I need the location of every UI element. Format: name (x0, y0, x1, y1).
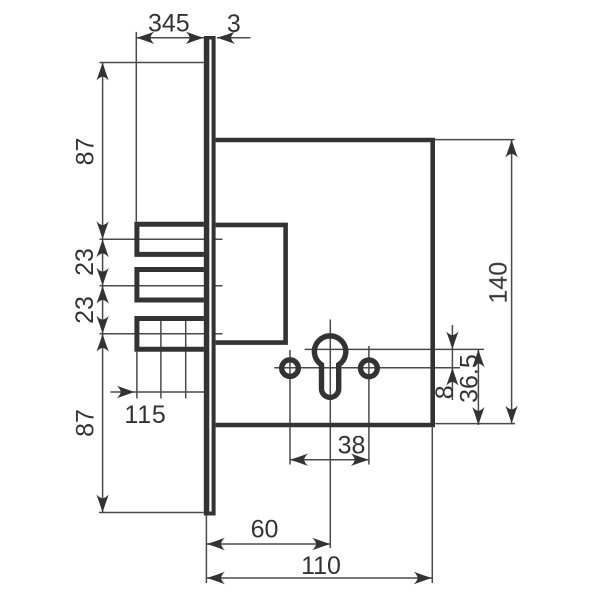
dimension line 8 (x=452.4) (451, 325, 453, 400)
dimension line 3 (y=37.8) (217, 37, 251, 39)
dimension line 115 (y=392) (111, 391, 207, 393)
extension line bolt3 inner vertical 2 (185, 316, 187, 399)
arrow 23b top up (96, 286, 108, 304)
svg-text:23: 23 (71, 248, 99, 276)
dimension line 87/23/23/87 vertical chain (102, 63, 104, 513)
left screw hole (282, 360, 299, 377)
arrow 87 top up (96, 63, 108, 81)
svg-text:3: 3 (227, 10, 241, 38)
centerline screw holes horizontal (y=367.8) (274, 367, 460, 369)
deadbolt 1 (137, 224, 204, 254)
arrow 140 top up (505, 140, 517, 158)
centerline right screw vertical (368, 346, 370, 465)
arrow 36.5 top up (472, 349, 484, 367)
dimension line 60 (y=544) (206, 543, 330, 545)
faceplate inner slot (209, 40, 211, 512)
arrow 110 right (414, 572, 432, 584)
arrow 87 bottom down (96, 221, 108, 239)
dimension line 110 (y=578) (206, 577, 431, 579)
extension line x=136.3 from top dim to bolt boxes (135, 32, 137, 222)
arrow 60 right (312, 538, 330, 550)
extension line bolt3 center (y=333.8) (100, 333, 223, 335)
arrow 345 right (186, 32, 204, 44)
extension line bolt2 center (y=285.8) (100, 285, 223, 287)
svg-text:115: 115 (124, 401, 166, 429)
svg-text:87: 87 (72, 409, 100, 437)
centerline cylinder vertical (329, 320, 331, 549)
dimension line 36.5 (x=478.4) (477, 349, 479, 425)
arrow 87b top up (96, 334, 108, 352)
arrow 36.5 bottom down (472, 407, 484, 425)
arrow 38 left (290, 454, 308, 466)
arrow 23b bottom down (96, 316, 108, 334)
svg-text:38: 38 (338, 432, 366, 460)
arrow 8 bottom up-pointing (446, 368, 458, 386)
extension line faceplate bottom vertical (205, 516, 207, 584)
faceplate (204, 36, 216, 516)
svg-text:36.5: 36.5 (456, 354, 484, 403)
arrow 115 right-pointing (117, 386, 135, 398)
arrow 140 bottom down (505, 406, 517, 424)
arrow 60 left (207, 538, 225, 550)
euro cylinder keyhole (314, 336, 345, 398)
svg-text:87: 87 (72, 138, 100, 166)
right screw hole (361, 360, 378, 377)
arrow 3 left-pointing (217, 32, 235, 44)
svg-text:110: 110 (301, 552, 341, 580)
extension line lock right bottom vertical (431, 427, 433, 583)
centerline cylinder horizontal (y=349.4) (305, 348, 484, 350)
extension line lock top right (y=139.6) (435, 139, 515, 141)
extension line bolt1 center (y=239.3) (100, 238, 223, 240)
arrow 87b bottom down (96, 495, 108, 513)
inner rectangle (follower cavity) (216, 225, 286, 343)
svg-text:140: 140 (485, 262, 513, 304)
dimension line 38 (y=459.7) (290, 459, 369, 461)
extension line top-left chain (y=62.5) (100, 62, 204, 64)
svg-text:345: 345 (148, 10, 190, 38)
dimension line 140 (x=511.6) (511, 140, 513, 424)
extension line bolt3 inner vertical 1 (160, 316, 162, 399)
arrow 23a bottom down (96, 268, 108, 286)
arrow 38 right (351, 454, 369, 466)
arrow 23a top up (96, 239, 108, 257)
arrow 345 left (136, 32, 154, 44)
dimension line 345 (y=37.8) (136, 37, 204, 39)
lock body outline (216, 140, 433, 425)
deadbolt 3 (137, 319, 204, 350)
svg-text:60: 60 (251, 516, 279, 544)
arrow 8 top down-pointing (446, 331, 458, 349)
deadbolt 2 (137, 270, 204, 301)
extension line below bolt3 left edge (136, 352, 138, 399)
centerline left screw vertical (289, 350, 291, 465)
extension line bottom-left (y=512.5) (99, 512, 204, 514)
extension line lock bottom right (y=423.6) (435, 423, 515, 425)
arrow 110 left (207, 572, 225, 584)
svg-text:23: 23 (71, 296, 99, 324)
